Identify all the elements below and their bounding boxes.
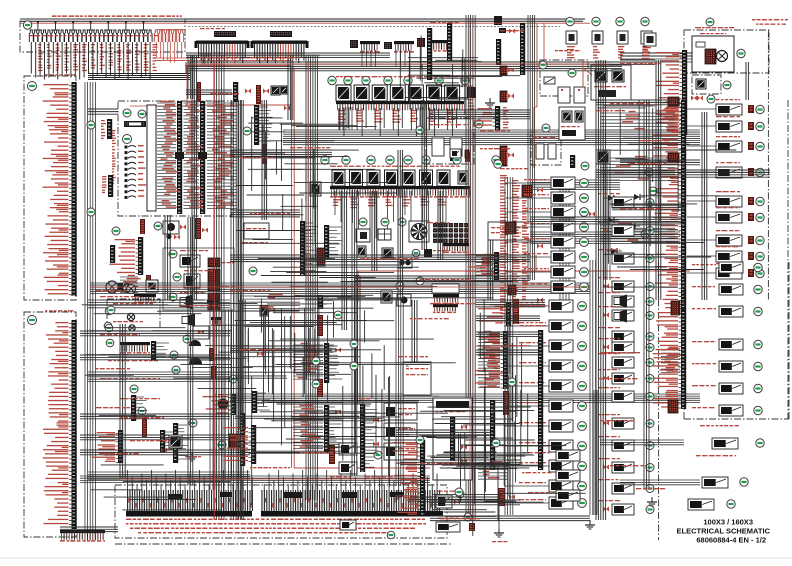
horn H2 [189,358,216,379]
wire mesh left-low [82,300,231,510]
hatch bar HA4a [140,219,145,234]
frame bottom dash [115,543,452,545]
comb X22 [443,243,469,253]
wire long runs [80,53,684,520]
id circles right-mid [641,168,657,238]
wire bus q2b [430,110,530,119]
starter hatch [696,42,716,64]
wire top-mid bus [186,62,622,74]
solenoid S30 [180,255,200,267]
red feed wire [357,255,690,302]
connector bar XD2 [478,302,511,326]
id circle A7 [249,267,257,275]
control unit enclosure A3 [118,101,232,216]
title block text [677,518,771,545]
connector J4 [110,245,115,263]
bar X20b [151,341,169,361]
battery box enclosure [684,30,769,73]
connector bar XC6 [223,425,256,464]
terminal strip X30 [126,470,443,517]
ground G1 [492,528,508,542]
wire red valve feed [534,62,537,168]
id circles A6r [104,322,114,347]
connector J2 [107,119,112,139]
wire mesh center-low2 [420,299,560,499]
connector bar XA4 [109,237,143,275]
terminal labels row2 [126,523,426,525]
bowties hub [537,188,595,303]
solenoid column A upper [505,177,588,293]
junction box A5 [433,398,472,480]
cone A4 [180,295,193,308]
id circles left column [130,335,237,449]
id circle K11 [707,95,715,103]
wire box A outputs [85,82,95,540]
top right bars [427,23,525,80]
bowtie X19 [509,29,515,34]
node circle A3b [138,110,146,118]
comb XA4c [134,294,156,303]
wirerows col B [661,348,683,373]
label top-right corner [752,19,788,25]
relay row2 labels [330,166,460,167]
hatch HL1 [142,417,147,437]
wire dash-dot feed line [188,27,560,30]
wire central bus highway [283,130,700,145]
ground G2 [585,520,595,529]
connector bar XC5 [240,413,245,466]
box A8 [403,362,431,395]
switch module S20 [356,229,370,242]
wire cross bus mid [90,283,590,294]
connector bar XL1 [131,395,147,421]
id circle X30 [387,531,395,539]
hatch HQ1 [500,66,514,75]
module MC2 [257,306,341,415]
id circle A4b [112,227,120,235]
node label circle A6 [28,316,37,325]
hatch bar HM3 [262,144,267,164]
id circle battery [737,49,745,57]
actuator column R1 rows [687,99,764,279]
starter wires [620,53,692,62]
wire rows A4 [120,275,141,293]
wire vertical highway 4 [231,100,241,520]
keypad hatch [229,434,240,448]
connector bar XC3 [324,225,342,259]
relay row1 pin comb [336,101,464,110]
connector bar XD3 [475,331,509,389]
node circle A3a [123,109,131,117]
connector comb X16 [360,41,380,53]
connector bar XL4 [173,423,190,463]
wire fuse output drops [31,42,157,80]
module M20 [556,450,580,501]
hatch connector H1 [317,248,325,336]
frame col B [658,262,660,540]
connector bar XM1 [200,101,205,214]
pump label [100,296,139,297]
relay aux module [310,171,468,196]
wire highway risers [340,107,429,130]
label J3 [102,176,107,193]
relay row1 id circles K4.1-K4.7 [328,76,469,84]
relay group K8 [566,31,652,59]
wire mesh right-mid [597,100,736,287]
connector bar X31 [392,440,425,515]
relay K12b [436,513,475,532]
wirerows top-c [240,294,300,309]
connector bar XR1 [656,50,687,135]
control box A10 [384,403,417,420]
fuse bank F1-F14 [29,21,152,42]
connector pair C2 [208,269,220,291]
hatch bar HM1 [197,82,201,102]
valve box Q2 [416,118,483,164]
relay box K10 [692,75,731,94]
starter motor M4 [717,51,728,62]
fan motor M3 [409,221,429,242]
connector bar XC9 [490,400,495,470]
motor M6 [214,394,234,410]
connector bar XC7 [360,404,378,472]
junction blobs [175,152,207,159]
terminal headers [168,492,404,499]
feeder bar XR0 [653,100,687,310]
relay row2 side connector [450,150,470,162]
pump box enclosure [107,299,160,331]
wire harness A3 rows2 [184,101,204,209]
solenoid box [539,60,592,103]
connector bar XC4 [293,343,343,383]
ground G4 [393,300,403,499]
id circles V1 [542,123,579,132]
connector header X12 [270,31,292,37]
solenoid column A lower [504,300,586,509]
label J2 [101,120,106,139]
connector bar XC4b [293,405,342,452]
keypad matrix [433,223,469,243]
right frame dash [767,30,769,300]
right lower enclosure [684,262,789,419]
relay bank K4 row1 [336,85,460,136]
wirerows B1 [478,460,508,479]
module M10 [339,443,382,459]
module M5 [271,86,288,95]
label under A7 [242,242,268,243]
wire fuse bus bundle [88,74,190,80]
wire mesh q2-top [400,36,520,115]
valve column R2 [692,262,762,416]
id circles A4r [169,250,181,301]
label bus designations [52,15,182,17]
connector bar XA6 [43,320,77,529]
wire channel runs horizontal [60,53,770,532]
connector bar XL3 [160,430,178,452]
display window [147,105,156,211]
connector bar XA3c [177,101,182,214]
solenoid S31 [184,274,200,288]
connector comb X19 [427,40,449,52]
wire cross bus low [230,394,700,402]
label fuse values [30,35,158,36]
valve block [146,280,158,292]
relay K13 [340,520,356,530]
ecu enclosure A1 [24,76,76,300]
label battery box [695,27,734,34]
wire main positive bus [20,16,585,33]
component U9 [596,150,610,164]
wire channel runs vertical [120,55,748,520]
comb X23 [432,281,459,314]
connector header X15 [350,40,358,48]
connector combs X13 X14 [195,41,309,64]
motor MA4 [118,283,131,292]
label A3 left [112,130,116,184]
valve box V1 [531,132,561,165]
id circle A4a [154,222,162,230]
label box A top [45,74,75,75]
connector bar XA1 [43,82,77,296]
feeder bar XR2 [653,310,687,409]
hatch HD1 [503,300,519,415]
box A9 [488,222,531,240]
relay row2 id circles K5.x [321,156,500,164]
connector bar XM2 [254,105,273,145]
labels pump box [113,303,153,322]
module row y286 [381,277,424,306]
id circles center [359,218,420,257]
connector bar XC6b [252,391,270,413]
wire mesh center-low [230,295,455,514]
hatch connector H2 [262,306,335,464]
connector bar XC7b [318,295,333,309]
connector bar XQ1 [475,106,509,130]
connector bar XD1 [465,252,499,280]
relay row2 pin labels and drops [333,191,447,239]
wire vertical highway 5 [528,15,535,280]
hatch hub3 [508,285,516,295]
wire cross bus bottom [80,476,430,483]
connector header XA3 [124,121,146,127]
relay row1 side connector [467,87,476,110]
comb X20 [120,342,150,354]
node label circle A1 [28,82,37,91]
label scattered wire tags [96,22,740,519]
hatch HB1 [498,488,515,528]
connector bar XM3 [233,82,238,102]
wire red fuse feeds [155,30,292,63]
connector pair C3 [208,293,220,310]
wire red accents [90,18,610,520]
connector bar XL5 [203,394,237,415]
hatch bar HM2 [256,85,261,104]
sub box A4r [163,248,234,310]
hatch hub1 [522,185,532,197]
terminal X32 [60,530,105,542]
labels left-mid [100,360,201,457]
switch box MT [193,326,209,339]
ecu enclosure A6 [24,312,76,537]
id circles scattered [87,18,714,496]
labels A4r [180,250,235,293]
connector J3 [108,175,113,197]
terminal labels row4 [138,532,388,533]
page edge rule [0,558,792,559]
right lower modules [688,438,764,510]
column A vertical wires [505,177,513,515]
hub mesh [530,150,680,300]
wire vertical highway 1 [306,55,318,500]
ground G3 [647,497,657,506]
diode group D1 [604,194,645,254]
connector header X17 [384,38,425,49]
bowtie T1 [373,418,379,447]
wire top-mid drops [202,50,410,67]
assembly A13 [559,107,585,140]
wire vertical highway 3 [214,55,224,520]
hatch hub2 [505,222,516,234]
fuse bank F15-F18 (red) [154,30,183,42]
relay row1 labels [336,76,461,77]
node label circle A2 [23,21,31,29]
bowtie TM1 [245,89,290,111]
wire mesh mid-band [254,255,513,300]
right bottom wires [600,440,700,485]
sensor cone B2 [182,314,221,327]
switch column S1-S10 [125,145,147,199]
relay K12a [436,490,464,508]
wire mesh bottom-mid [430,421,586,536]
hatch H5 [668,153,679,162]
wire red feeds Q2 [537,23,544,62]
hatch HA4c [146,275,151,282]
terminal strip enclosure [115,485,447,538]
wire mesh q3-extra [151,298,342,445]
relay K9 [643,33,656,59]
wire right feeders [600,111,675,242]
hatch HQ3 [500,146,514,166]
id circles pump [105,307,113,332]
node circle A3c [123,135,132,144]
motor M1 [106,281,118,293]
label comb rows [198,53,304,54]
wire harness A3 rows1 [157,101,180,209]
connector comb X18 [394,41,414,53]
ground GL [187,452,197,461]
relay bank K5 row2 [332,170,450,186]
hatch HQ2 [500,91,514,102]
wire red feed pair [185,65,430,468]
connector bar XL2 [92,430,124,463]
label hub cols [500,175,529,314]
column B wires [590,260,597,515]
terminal labels row3 [130,528,415,530]
control box A11 [384,423,417,440]
hatch KR2 [668,96,703,107]
wire left-mid mesh [88,300,250,490]
label box B top [45,310,74,311]
horn H1 [189,340,214,361]
column A feeder bar [538,330,543,470]
hatch bar HA4b [195,218,208,239]
hatch connector H3 [668,301,680,413]
fuse box enclosure [20,19,185,52]
connector pair C1 [208,258,220,267]
sensor cone B1 [180,297,219,310]
wire harness A3 rows3 [207,101,237,209]
battery inner frame [692,36,734,72]
module MQ1 [450,149,469,158]
module A7 [244,223,269,239]
right frame dash 2 [787,100,789,420]
wire red supply bus [20,22,590,24]
assembly A12 [591,65,631,100]
solenoid column B [598,193,654,515]
relay row2 pin bar [330,186,470,198]
cones col B [614,295,627,323]
connector bar XC2 [300,221,319,276]
circle row top [566,17,649,25]
connector bar XH2 [570,155,589,170]
motor M5 [127,313,135,331]
component U8 goggles [398,222,449,268]
svg-text:A: A [406,363,409,368]
motor M2 [127,285,136,294]
connector header X11 [214,31,236,37]
module ML [161,435,182,453]
wire red link [130,65,187,106]
relay K7 [357,246,393,258]
fan module A4 [163,221,186,240]
control box A12 [384,443,417,460]
module M11 [339,462,357,474]
wire vertical highway 2 [466,15,475,520]
ground GQ1 [485,98,495,107]
switch module S21 [378,229,391,240]
terminal labels row1 [126,519,425,521]
wire mesh center-mid [236,116,396,272]
labels M20 [522,452,554,493]
